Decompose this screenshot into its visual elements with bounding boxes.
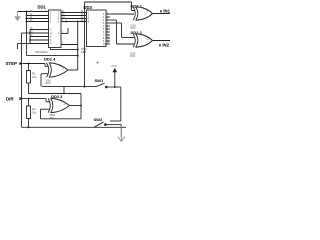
DD3 right stub y=32 [106, 31, 110, 33]
svg-text:ИЕ8: ИЕ8 [81, 50, 87, 54]
wire SW2 contact line [107, 124, 122, 126]
SW2 contact dot [104, 123, 107, 126]
wire DIR [23, 98, 47, 100]
wire y=93.5 R1 to DD2.3 loop [29, 93, 82, 95]
wire tie x=64 to DD2.3 loop top [63, 87, 65, 94]
junction (77.7,55.6) [77, 55, 79, 57]
wire DD1 left pin y=40.0 [30, 39, 49, 41]
DD3 right stub y=29 [106, 28, 110, 30]
wire SW1 contact to x=120.8 [108, 86, 121, 88]
XOR gate DD2.4 [47, 63, 69, 78]
junction output/loop [80, 105, 82, 107]
wire into DD2.2 upper input [122, 37, 135, 39]
wire SW1 pivot line y=86.6 [42, 86, 96, 88]
wire long vertical x=21.5 from DD1 to bottom [21, 33, 23, 127]
wire vertical x=84.5 top-rail to SW1 [84, 2, 86, 87]
wire vertical x=40.5 [40, 109, 42, 119]
XOR gate DD2.1 [133, 7, 153, 21]
wire DD1 bottom pin y=49.6 [51, 49, 78, 51]
wire R1 bottom lead [28, 83, 30, 94]
wire vertical tie lower DD1 pins [29, 30, 31, 44]
junction STEP/R1 [28, 63, 30, 65]
svg-text:ЛП2: ЛП2 [46, 82, 51, 85]
wire DD2.2 output [153, 40, 171, 42]
wire DD2.4 output [68, 69, 78, 71]
wire DD2.1 output [153, 13, 171, 15]
resistor R1 [27, 71, 31, 84]
svg-text:DIR: DIR [6, 96, 14, 101]
wire DD1 left pin y=18.5 [27, 18, 49, 20]
junction (66,21.5) [65, 21, 67, 23]
wire stub at y=33 [22, 32, 31, 34]
wire into DD2.3 upper input [46, 101, 50, 103]
wire DD2.3 loop right x=81 [80, 94, 82, 119]
power arrow +5V [112, 68, 117, 72]
SW1 lever [96, 83, 105, 86]
junction bus y=15.5 [26, 15, 28, 17]
svg-text:к IN2: к IN2 [159, 43, 170, 48]
junction DIR/R2 [28, 98, 30, 100]
wire into DD2.1 upper input [132, 10, 135, 12]
wire R2 bottom lead [28, 119, 30, 128]
junction bus y=18.5 [26, 18, 28, 20]
stub DD1 bottom pin [50, 48, 52, 50]
junction rail / SW1 contact wire [114, 86, 116, 88]
wire DD1 to DD3 y=21.5 [61, 21, 87, 23]
wire R2 top lead [28, 99, 30, 106]
wire vertical x=121.5 [121, 23, 123, 38]
ground arrow bottom [120, 125, 122, 141]
wire DD2.3 loop bottom y=118.8 [41, 118, 82, 120]
wire vertical x=77.7 to DD2.4 output [77, 22, 79, 71]
junction tie 33 [29, 32, 31, 34]
wire extend y=43.5 left [18, 43, 31, 45]
svg-text:STEP: STEP [6, 61, 18, 66]
wire vertical x=116.5 [116, 20, 118, 44]
wire DD1 right pin y=44.5 [61, 44, 78, 46]
wire DD2.3 output [70, 105, 82, 107]
wire DD3 y=20 right [110, 19, 117, 21]
wire corner stub to SW2 lever tip [110, 120, 121, 122]
svg-text:DD3: DD3 [84, 5, 93, 10]
IC DD3 box [87, 10, 107, 47]
wire DD1 to DD3 y=12.5 [61, 12, 87, 14]
DD3 right stub y=20 [106, 19, 110, 21]
svg-text:+: + [96, 61, 99, 67]
wire DD1 right pin y=33.5 [61, 33, 68, 35]
wire into DD2.2 lower input [117, 43, 135, 45]
wire DD1 left pin y=33.0 [30, 32, 49, 34]
junction bus top [26, 11, 28, 13]
svg-text:ЛП2: ЛП2 [50, 117, 55, 120]
wire ground drop x=121.3 [120, 125, 122, 137]
wire DD2.4 loop top y=55.6 [27, 55, 78, 57]
svg-text:DD2.4: DD2.4 [44, 57, 56, 62]
DD3 right stub y=14 [106, 13, 110, 15]
wire bottom long y=127.3 [22, 126, 127, 128]
DD3 right stub y=38 [106, 37, 110, 39]
junction (77.7,49.6) [77, 49, 79, 51]
wire vertical x=41 to SW1 wire [40, 74, 42, 87]
DD3 right stub y=26 [106, 25, 110, 27]
IC DD1 box [49, 10, 62, 48]
wire +5V rail down x=114.8 [114, 72, 116, 87]
XOR gate DD2.3 [48, 98, 70, 113]
wire hook up x=68 [67, 28, 69, 34]
wire DD3 y=14 to DD2.1 lower input [110, 13, 134, 15]
resistor R2 [27, 106, 31, 119]
svg-text:К561ИЕ10: К561ИЕ10 [35, 50, 48, 54]
SW1 contact dot [105, 86, 108, 89]
DD3 right stub y=17 [106, 16, 110, 18]
wire DD1 to DD3 y=15.5 [61, 15, 87, 17]
junction (84.5,21.5) [84, 21, 86, 23]
wire STEP [23, 63, 46, 65]
wire top rail y=2 [85, 1, 132, 3]
junction DIR/vertical [21, 98, 23, 100]
wire DD1 to DD3 y=18.5 [61, 18, 87, 20]
junction R2 bottom [28, 126, 30, 128]
svg-text:ЛП2: ЛП2 [130, 55, 135, 58]
wire DD1 left pin y=36.5 [30, 36, 49, 38]
junction x=84.5 vertical / SW1 wire [84, 86, 86, 88]
wire DD3 y=23 right [110, 22, 122, 24]
SW2 lever [94, 122, 104, 128]
wire DD1 pin1 to ground arrow [18, 11, 49, 13]
svg-text:SW1: SW1 [95, 78, 104, 83]
junction tie 40 [29, 39, 31, 41]
wire vertical x=120.8 down [120, 87, 122, 121]
junction bus y=21.5 [26, 21, 28, 23]
wire stub down x=17.5 [17, 44, 19, 50]
wire into DD2.4 upper input [45, 65, 49, 67]
wire STEP jog down [44, 64, 46, 67]
ground arrow top-left [17, 12, 19, 21]
svg-text:DD1: DD1 [38, 4, 47, 9]
wire DD1 left pin y=29.5 [30, 29, 49, 31]
svg-text:+5 В: +5 В [111, 64, 117, 68]
DD3 right stub y=41 [106, 40, 110, 42]
STEP input terminal arrow [20, 62, 23, 65]
wire DD1 left pin y=21.5 [27, 21, 49, 23]
wire vertical bus left of DD1 [26, 12, 28, 56]
wire DD2.4 lower input [41, 73, 49, 75]
DD3 right stub y=35 [106, 34, 110, 36]
junction (77.7,21.5) [77, 21, 79, 23]
wire DD1 left pin y=43.5 [30, 43, 49, 45]
wire DD1 left pin y=15.5 [27, 15, 49, 17]
DIR input terminal arrow [20, 97, 23, 100]
wire DD2.3 lower input [41, 108, 51, 110]
DD3 right stub y=44 [106, 43, 110, 45]
svg-text:SW2: SW2 [94, 117, 103, 122]
wire R1 top lead [28, 64, 30, 71]
wire rail drop to DD2.1 input [131, 2, 133, 11]
wire DIR jog down [45, 99, 47, 102]
svg-text:к IN1: к IN1 [160, 8, 170, 13]
XOR gate DD2.2 [133, 34, 153, 48]
DD3 right stub y=23 [106, 22, 110, 24]
